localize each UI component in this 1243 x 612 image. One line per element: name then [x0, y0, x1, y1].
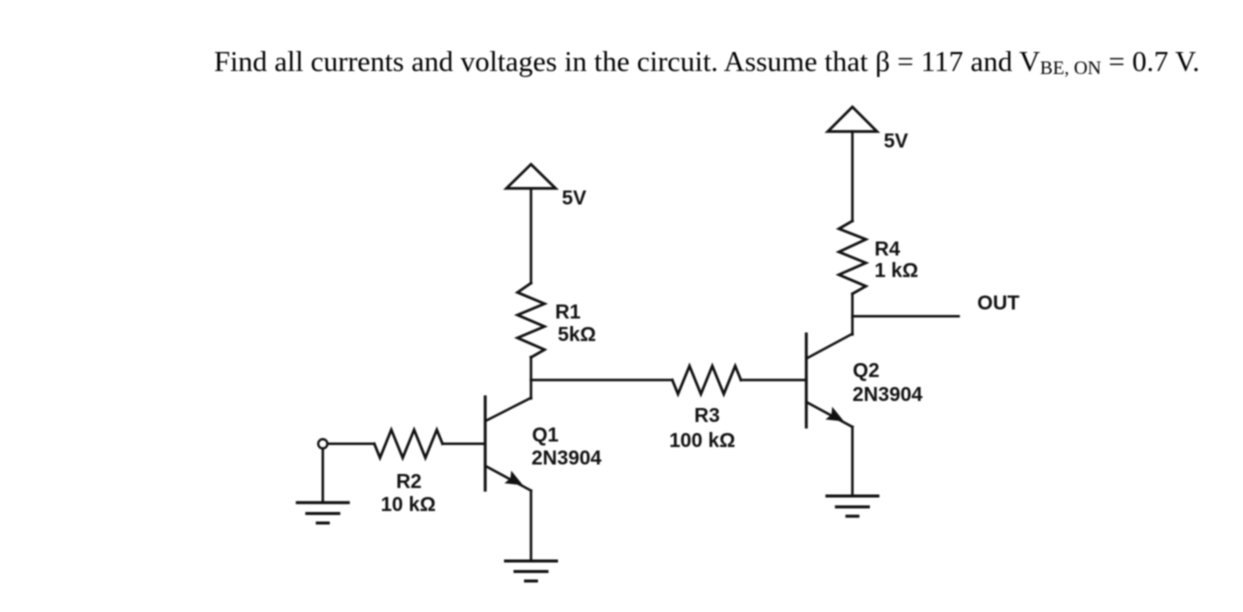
- resistor R3: [672, 366, 741, 394]
- wire: left 5V to R1 top: [530, 188, 533, 283]
- wire: terminal to R2: [328, 443, 374, 446]
- svg-text:Q2: Q2: [853, 360, 880, 382]
- wire: right 5V to R4 top: [851, 132, 854, 222]
- wire: Q2 emitter to ground: [851, 427, 854, 496]
- svg-text:R2: R2: [396, 471, 422, 493]
- svg-text:10 kΩ: 10 kΩ: [381, 494, 436, 516]
- wire: R1 bottom to Q1 collector (node at y=380): [530, 357, 533, 399]
- svg-text:R3: R3: [694, 405, 720, 427]
- svg-text:R1: R1: [555, 302, 581, 324]
- svg-text:2N3904: 2N3904: [532, 448, 603, 470]
- wire: terminal down to ground: [322, 449, 325, 503]
- input terminal (circle): [318, 439, 327, 448]
- ground (under Q1): [506, 561, 557, 581]
- problem statement text: [214, 48, 1200, 77]
- wire: R4 bottom to Q2 collector (OUT node at y=316.3): [851, 294, 854, 335]
- power supply 5V symbol (right): [828, 107, 877, 132]
- svg-text:5V: 5V: [884, 131, 909, 153]
- svg-text:Q1: Q1: [532, 425, 559, 447]
- power supply 5V symbol (left): [506, 164, 555, 188]
- svg-text:OUT: OUT: [977, 292, 1019, 314]
- svg-text:1 kΩ: 1 kΩ: [875, 260, 919, 282]
- transistor Q2: [806, 334, 852, 427]
- wire: Q1 emitter to ground: [530, 491, 533, 561]
- svg-text:5kΩ: 5kΩ: [558, 324, 596, 346]
- wire: R2 to Q1 base: [443, 443, 485, 446]
- ground (left input): [297, 503, 348, 523]
- transistor Q1: [485, 397, 531, 491]
- wire: node to R3: [531, 379, 672, 382]
- resistor R2: [374, 430, 442, 458]
- wire: OUT tap: [852, 315, 958, 318]
- svg-text:5V: 5V: [562, 187, 587, 209]
- resistor R4: [839, 221, 866, 294]
- wire: R3 to Q2 base: [741, 379, 806, 382]
- svg-text:2N3904: 2N3904: [853, 384, 924, 406]
- ground (under Q2): [827, 496, 878, 516]
- svg-text:100 kΩ: 100 kΩ: [669, 430, 735, 452]
- svg-text:R4: R4: [875, 238, 901, 260]
- resistor R1: [518, 283, 545, 357]
